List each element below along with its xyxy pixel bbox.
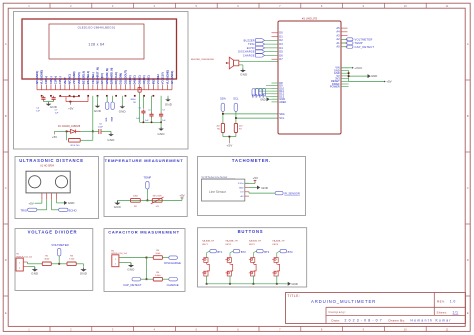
svg-text:BT1: BT1	[217, 250, 222, 254]
junction dots row	[41, 95, 43, 97]
left red segment wires	[59, 96, 80, 98]
svg-text:N/C(GND1): N/C(GND1)	[35, 71, 39, 85]
svg-text:Company:: Company:	[329, 310, 347, 314]
wires H1	[23, 261, 27, 263]
OLED module U4 outline	[22, 19, 177, 79]
svg-text:CAP_DETECT: CAP_DETECT	[123, 283, 142, 287]
resistor R1	[42, 262, 51, 266]
svg-text:TRIG: TRIG	[20, 208, 27, 212]
svg-text:BT2: BT2	[256, 94, 258, 98]
svg-text:2: 2	[19, 267, 21, 269]
svg-text:Hemanth Kumar: Hemanth Kumar	[411, 319, 452, 323]
+5V tachometer	[245, 182, 255, 184]
svg-text:R3: R3	[70, 255, 74, 257]
capacitor measurement section box	[104, 229, 185, 292]
svg-text:GND: GND	[260, 98, 266, 101]
svg-text:Drawn By:: Drawn By:	[389, 319, 406, 323]
svg-text:GND: GND	[292, 282, 298, 286]
capacitor C4	[42, 95, 44, 98]
ground reset circuit	[110, 131, 112, 132]
transducer right	[55, 176, 67, 188]
svg-text:D7: D7	[279, 57, 283, 61]
svg-text:+5V: +5V	[68, 106, 73, 110]
net flag ECHO	[256, 46, 265, 49]
net flag DISCHARGE	[162, 257, 168, 259]
arduino left digital pins D0-D7	[272, 32, 279, 34]
svg-text:#1 UNO_R3: #1 UNO_R3	[302, 17, 318, 21]
svg-text:C2: C2	[148, 110, 151, 112]
resistor R8	[138, 87, 141, 92]
svg-text:C1P(+): C1P(+)	[54, 76, 58, 84]
+5V pullups	[228, 140, 230, 143]
capacitor C1	[142, 96, 144, 109]
svg-text:8: 8	[321, 4, 323, 8]
svg-text:R1: R1	[45, 255, 49, 257]
border zone ticks left/right	[3, 79, 8, 81]
svg-text:E/RD#(RD_N): E/RD#(RD_N)	[109, 68, 113, 85]
svg-text:3.3-5v: 3.3-5v	[238, 183, 245, 185]
svg-text:2k0: 2k0	[239, 126, 243, 128]
HC-SR04 body	[26, 171, 70, 193]
svg-text:1/1: 1/1	[453, 311, 459, 315]
svg-text:AREF: AREF	[279, 100, 286, 104]
svg-text:A2: A2	[336, 37, 340, 41]
svg-text:CS#(SEL): CS#(SEL)	[91, 72, 95, 84]
net flags BT1-BT4 vertical	[252, 89, 255, 97]
switch body KEY2	[230, 251, 233, 252]
svg-text:NTC/10K: NTC/10K	[153, 196, 163, 198]
OLED pin stubs	[36, 85, 38, 90]
resistor R2	[131, 199, 141, 203]
net flag CAP_DETECT	[341, 46, 347, 48]
svg-text:R4: R4	[156, 272, 160, 274]
svg-text:CAP_DETECT: CAP_DETECT	[355, 45, 375, 49]
svg-text:KA-B4B_TH: KA-B4B_TH	[249, 240, 261, 243]
switch actuator KEY2	[231, 264, 233, 271]
svg-text:3: 3	[112, 4, 114, 8]
ground buttons	[288, 282, 291, 286]
net flag CAP_DETECT	[132, 278, 141, 281]
+5V feed	[70, 102, 72, 105]
border zone ticks top/bottom	[49, 3, 51, 8]
svg-text:BS2(SEL1): BS2(SEL1)	[86, 71, 90, 84]
thermistor U3	[152, 199, 162, 203]
svg-text:10uF: 10uF	[98, 126, 104, 128]
svg-text:ULTRASONIC DISTANCE: ULTRASONIC DISTANCE	[19, 158, 84, 163]
net flag DISCHARGE	[256, 50, 265, 53]
capacitor C2	[151, 96, 153, 113]
svg-text:B: B	[5, 114, 7, 118]
svg-text:KEY3: KEY3	[249, 244, 255, 246]
svg-text:Date:: Date:	[332, 319, 341, 323]
switch side pins KEY1	[202, 258, 204, 260]
svg-text:VOLTMETER: VOLTMETER	[355, 37, 373, 41]
svg-text:D2(SDOUT): D2(SDOUT)	[123, 70, 127, 84]
svg-text:CHARGE: CHARGE	[167, 283, 179, 287]
ground below C4 C7	[42, 100, 44, 103]
svg-text:SCL: SCL	[279, 116, 285, 120]
switch side pins KEY3	[249, 258, 251, 260]
arduino right power pins	[341, 67, 349, 69]
svg-text:6: 6	[237, 4, 239, 8]
svg-text:D5(NC): D5(NC)	[137, 75, 141, 84]
ground tachometer	[249, 187, 257, 189]
svg-text:+5V: +5V	[253, 176, 258, 180]
svg-text:Sheet:: Sheet:	[437, 311, 448, 315]
svg-text:VOLTMETER: VOLTMETER	[51, 243, 68, 247]
svg-text:A: A	[5, 42, 7, 46]
switch actuator KEY3	[254, 264, 256, 271]
svg-text:128 x 64: 128 x 64	[88, 43, 104, 47]
svg-text:D3(NC): D3(NC)	[128, 75, 132, 84]
ground right cluster	[160, 127, 162, 129]
svg-text:1: 1	[115, 259, 117, 261]
svg-text:D7(NC): D7(NC)	[147, 75, 151, 84]
svg-text:TEMPERATURE MEASUREMENT: TEMPERATURE MEASUREMENT	[105, 158, 184, 163]
resistor R7	[234, 124, 237, 133]
svg-text:U3: U3	[156, 206, 160, 208]
svg-text:KEY2: KEY2	[226, 244, 232, 246]
svg-text:Line Sensor: Line Sensor	[209, 190, 227, 194]
svg-text:C7: C7	[55, 109, 59, 111]
net flag BT4	[280, 250, 287, 253]
line sensor body	[202, 179, 245, 201]
svg-text:GND: GND	[371, 74, 377, 78]
svg-text:BUZZER_C96003010B: BUZZER_C96003010B	[191, 59, 214, 61]
capacitor C3	[160, 96, 162, 113]
svg-text:C3: C3	[162, 110, 165, 112]
svg-text:GND: GND	[94, 109, 101, 113]
svg-text:TACHOMETER.: TACHOMETER.	[232, 158, 271, 163]
svg-text:BT3: BT3	[264, 250, 269, 254]
svg-text:7: 7	[279, 4, 281, 8]
svg-text:2: 2	[70, 4, 72, 8]
svg-text:R9 4.7k0: R9 4.7k0	[71, 145, 81, 147]
svg-text:SDA: SDA	[110, 116, 113, 121]
svg-text:ECHO: ECHO	[69, 208, 78, 212]
svg-text:CHARGE: CHARGE	[243, 54, 255, 57]
svg-text:SDA: SDA	[220, 97, 226, 101]
svg-text:VCC(12V): VCC(12V)	[161, 72, 165, 84]
ground H1	[34, 267, 36, 270]
svg-text:KA-B4B_TH: KA-B4B_TH	[226, 240, 238, 243]
svg-text:A0: A0	[336, 45, 340, 49]
svg-text:D6: D6	[279, 53, 283, 57]
svg-text:R2: R2	[134, 206, 138, 208]
svg-text:380k0: 380k0	[130, 99, 136, 101]
svg-text:D6(NC): D6(NC)	[142, 75, 146, 84]
svg-text:VSS(GND): VSS(GND)	[72, 71, 76, 84]
wire KEY1 to rail	[206, 276, 208, 284]
net flag CHARGE	[256, 54, 265, 57]
svg-text:D0(SCLK): D0(SCLK)	[114, 72, 118, 84]
net flag BT2	[233, 250, 240, 253]
net flag SDA vertical	[112, 96, 114, 102]
svg-text:1uF: 1uF	[145, 120, 149, 122]
svg-text:DISCHARGE: DISCHARGE	[164, 261, 181, 265]
bus wire below OLED	[37, 89, 172, 91]
wire TEMP down	[146, 189, 148, 200]
net flag SCL vertical	[106, 96, 108, 102]
resistor R9 loop	[66, 131, 68, 140]
svg-text:10k0: 10k0	[155, 253, 161, 255]
net flag BT1	[210, 250, 217, 253]
ground arduino left bottom	[267, 97, 270, 101]
resistor R4	[147, 278, 154, 280]
svg-text:B: B	[467, 114, 469, 118]
svg-text:D4(NC): D4(NC)	[133, 75, 137, 84]
switch body KEY1	[207, 251, 210, 252]
wire KEY3 to rail	[252, 276, 254, 284]
svg-text:OLED1GO-2864KLBEG01: OLED1GO-2864KLBEG01	[78, 26, 116, 30]
svg-text:2k0: 2k0	[216, 126, 220, 128]
svg-text:SCL: SCL	[106, 116, 108, 121]
ground arduino right	[348, 71, 350, 77]
net flag BUZZER	[256, 39, 265, 42]
svg-text:C: C	[5, 186, 7, 190]
svg-text:5: 5	[195, 4, 197, 8]
ground mid left	[97, 96, 99, 104]
net flag BT3	[257, 250, 264, 253]
switch actuator KEY4	[277, 264, 279, 271]
svg-text:D3: D3	[279, 42, 283, 46]
junction D1 ends	[66, 131, 68, 133]
wire SCL to arduino	[235, 111, 237, 118]
svg-text:TRIG: TRIG	[248, 43, 255, 46]
svg-text:KA-B4B_TH: KA-B4B_TH	[202, 240, 214, 243]
wire SDA to arduino	[222, 111, 224, 114]
svg-text:A: A	[467, 42, 469, 46]
svg-text:+5V: +5V	[226, 144, 232, 148]
svg-text:5.2k0: 5.2k0	[155, 275, 161, 277]
ground ultrasonic	[56, 200, 58, 203]
svg-text:SDA: SDA	[279, 112, 285, 116]
junction cap top	[146, 257, 148, 259]
switch side pins KEY4	[272, 258, 274, 260]
ground right top	[167, 96, 169, 98]
wire to D1	[55, 130, 67, 132]
svg-text:GND: GND	[31, 271, 38, 275]
svg-text:BUTTONS: BUTTONS	[238, 229, 264, 234]
svg-text:GND: GND	[68, 201, 76, 205]
svg-text:VLSS(GND): VLSS(GND)	[165, 70, 169, 84]
svg-text:1.0: 1.0	[450, 300, 456, 304]
svg-text:10: 10	[404, 4, 407, 8]
svg-text:1uF: 1uF	[55, 112, 59, 114]
svg-text:RES#(RST_N): RES#(RST_N)	[95, 67, 99, 84]
svg-text:GND: GND	[165, 102, 172, 106]
svg-text:C6: C6	[99, 123, 103, 125]
+5V reset circuit	[54, 131, 56, 134]
svg-text:1: 1	[28, 4, 30, 8]
vertical wire cap	[146, 258, 148, 280]
svg-text:GND: GND	[261, 186, 269, 190]
svg-text:10k0: 10k0	[133, 196, 139, 198]
svg-text:D2: D2	[279, 38, 283, 42]
svg-text:C2P(+): C2P(+)	[44, 76, 48, 84]
svg-text:BT1: BT1	[252, 94, 254, 98]
svg-text:REV:: REV:	[437, 300, 446, 304]
svg-text:D1(SDIN): D1(SDIN)	[119, 73, 123, 84]
svg-text:KA-B4B_TH: KA-B4B_TH	[272, 240, 284, 243]
svg-text:E: E	[5, 311, 7, 315]
net flag SDA	[221, 103, 225, 111]
svg-text:BS1(SEL0): BS1(SEL0)	[82, 71, 86, 84]
wires caps bottom row	[140, 121, 162, 123]
svg-text:N/C(NC): N/C(NC)	[68, 74, 72, 84]
svg-text:R6: R6	[217, 129, 221, 131]
title block row lines	[326, 306, 466, 308]
ground mid	[121, 96, 123, 105]
+VCC supply flag	[341, 67, 352, 69]
wire KEY2 to rail	[229, 276, 231, 284]
svg-text:GND: GND	[50, 105, 57, 109]
svg-text:4: 4	[154, 4, 156, 8]
net flag CHARGE	[162, 278, 168, 280]
voltage divider section box	[15, 229, 93, 291]
svg-text:KEY4: KEY4	[272, 244, 278, 246]
net flag VOLTMETER	[341, 38, 347, 40]
ground H2	[130, 263, 132, 265]
buttons section box	[198, 228, 307, 287]
svg-text:A4: A4	[336, 30, 340, 34]
temperature section box	[104, 157, 187, 217]
svg-text:VBAT: VBAT	[63, 77, 67, 84]
svg-text:C1N(-): C1N(-)	[58, 76, 62, 84]
svg-text:R8: R8	[133, 102, 136, 104]
wires H2	[119, 257, 147, 259]
arduino left pins D8-AREF	[272, 82, 279, 84]
svg-text:R5: R5	[156, 250, 160, 252]
OLED display area	[49, 24, 144, 59]
arduino right analog pins A5-A0	[341, 27, 348, 29]
svg-text:C2N(-): C2N(-)	[49, 76, 53, 84]
svg-text:SCL: SCL	[233, 97, 239, 101]
svg-text:GND: GND	[107, 138, 114, 142]
svg-text:30k0: 30k0	[44, 258, 50, 260]
svg-text:D0: D0	[279, 31, 283, 35]
svg-text:A3: A3	[336, 33, 340, 37]
buzzer left pin	[227, 62, 230, 64]
net flag TRIG	[256, 42, 265, 45]
svg-text:R/W#(WR_N): R/W#(WR_N)	[105, 68, 109, 84]
transducer left	[29, 176, 41, 188]
svg-text:11: 11	[446, 4, 449, 8]
wire KEY4 to rail	[276, 276, 278, 284]
svg-text:1uF: 1uF	[36, 110, 40, 112]
svg-text:C: C	[467, 186, 469, 190]
switch body KEY3	[253, 251, 256, 252]
svg-text:C1: C1	[138, 108, 141, 110]
svg-text:7.5k0: 7.5k0	[69, 258, 75, 260]
net flag TEMP	[341, 42, 347, 44]
resistor R3	[67, 262, 76, 266]
svg-text:A1: A1	[336, 41, 340, 45]
svg-text:H2: H2	[111, 250, 115, 252]
svg-text:+VCC: +VCC	[354, 66, 363, 70]
wires pullups to +5V	[222, 114, 224, 124]
net flag IR_SENSOR wire D9	[266, 85, 272, 87]
title block outline	[286, 293, 466, 324]
svg-text:GND: GND	[127, 267, 134, 271]
svg-text:+5V: +5V	[52, 135, 57, 139]
net flag SCL	[234, 103, 238, 111]
svg-text:D5: D5	[279, 50, 283, 54]
svg-text:D1: D1	[279, 34, 283, 38]
OLED display section box	[14, 12, 189, 150]
svg-text:AO: AO	[240, 195, 243, 198]
+5V arduino right	[348, 76, 350, 81]
svg-text:D: D	[5, 258, 7, 262]
svg-text:CAPACITOR MEASUREMENT: CAPACITOR MEASUREMENT	[108, 230, 180, 235]
svg-text:2: 2	[115, 263, 117, 265]
+5V temperature	[181, 198, 183, 201]
svg-text:GND: GND	[239, 187, 244, 189]
svg-text:VLSS(GND): VLSS(GND)	[40, 70, 44, 84]
svg-text:1: 1	[19, 262, 21, 264]
ground R3	[76, 263, 83, 265]
svg-text:R7: R7	[239, 129, 243, 131]
svg-text:IREF: IREF	[151, 78, 155, 84]
svg-text:H1: H1	[17, 254, 21, 256]
svg-text:9: 9	[363, 4, 365, 8]
svg-text:TEMP: TEMP	[355, 41, 363, 45]
svg-text:+5V: +5V	[386, 80, 391, 84]
svg-text:GND: GND	[240, 73, 247, 77]
svg-text:DO: DO	[240, 192, 244, 194]
ground temperature	[116, 200, 118, 203]
svg-text:BT4: BT4	[288, 250, 293, 254]
tachometer section box	[198, 157, 306, 216]
svg-text:E: E	[467, 311, 469, 315]
svg-text:VOLTAGE DIVIDER: VOLTAGE DIVIDER	[28, 230, 78, 235]
switch actuator KEY1	[207, 264, 209, 271]
switch body KEY4	[277, 251, 280, 252]
svg-text:BT3: BT3	[259, 94, 261, 98]
svg-text:TEMP: TEMP	[144, 175, 152, 179]
sensor pins	[41, 193, 43, 200]
junction voltmeter	[51, 263, 67, 265]
svg-text:D4: D4	[279, 46, 283, 50]
svg-text:C4: C4	[36, 107, 40, 109]
buttons ground rail	[206, 283, 288, 285]
net flag TEMP vertical	[146, 181, 149, 189]
buzzer ground	[239, 64, 243, 66]
svg-text:D1 1N4148_C482188: D1 1N4148_C482188	[58, 126, 81, 128]
wire buzzer to arduino	[239, 60, 278, 62]
resistor R6	[221, 124, 224, 133]
op board U1 UNO_R3 outline	[278, 21, 341, 134]
svg-text:D: D	[467, 258, 469, 262]
net flag IR_SENSOR	[248, 192, 250, 193]
switch side pins KEY2	[225, 258, 227, 260]
svg-text:ECHO: ECHO	[247, 47, 255, 50]
svg-text:+5V: +5V	[179, 194, 184, 198]
svg-text:BT2: BT2	[241, 250, 246, 254]
svg-text:IR_SENSOR: IR_SENSOR	[284, 191, 300, 195]
resistor R5	[153, 256, 162, 260]
svg-text:BUZZER: BUZZER	[244, 39, 255, 42]
svg-text:1uF: 1uF	[162, 120, 166, 122]
svg-text:D/C#(DC): D/C#(DC)	[100, 73, 104, 85]
buzzer LS1	[234, 60, 239, 66]
ultrasonic section box	[15, 157, 99, 219]
svg-text:U1 HC-SR04: U1 HC-SR04	[40, 165, 55, 168]
svg-text:GND: GND	[114, 205, 121, 209]
svg-text:A5: A5	[336, 26, 340, 30]
svg-text:ARDUINO_MULTIMETER: ARDUINO_MULTIMETER	[311, 299, 376, 304]
svg-text:VDD(3V3): VDD(3V3)	[77, 72, 81, 84]
